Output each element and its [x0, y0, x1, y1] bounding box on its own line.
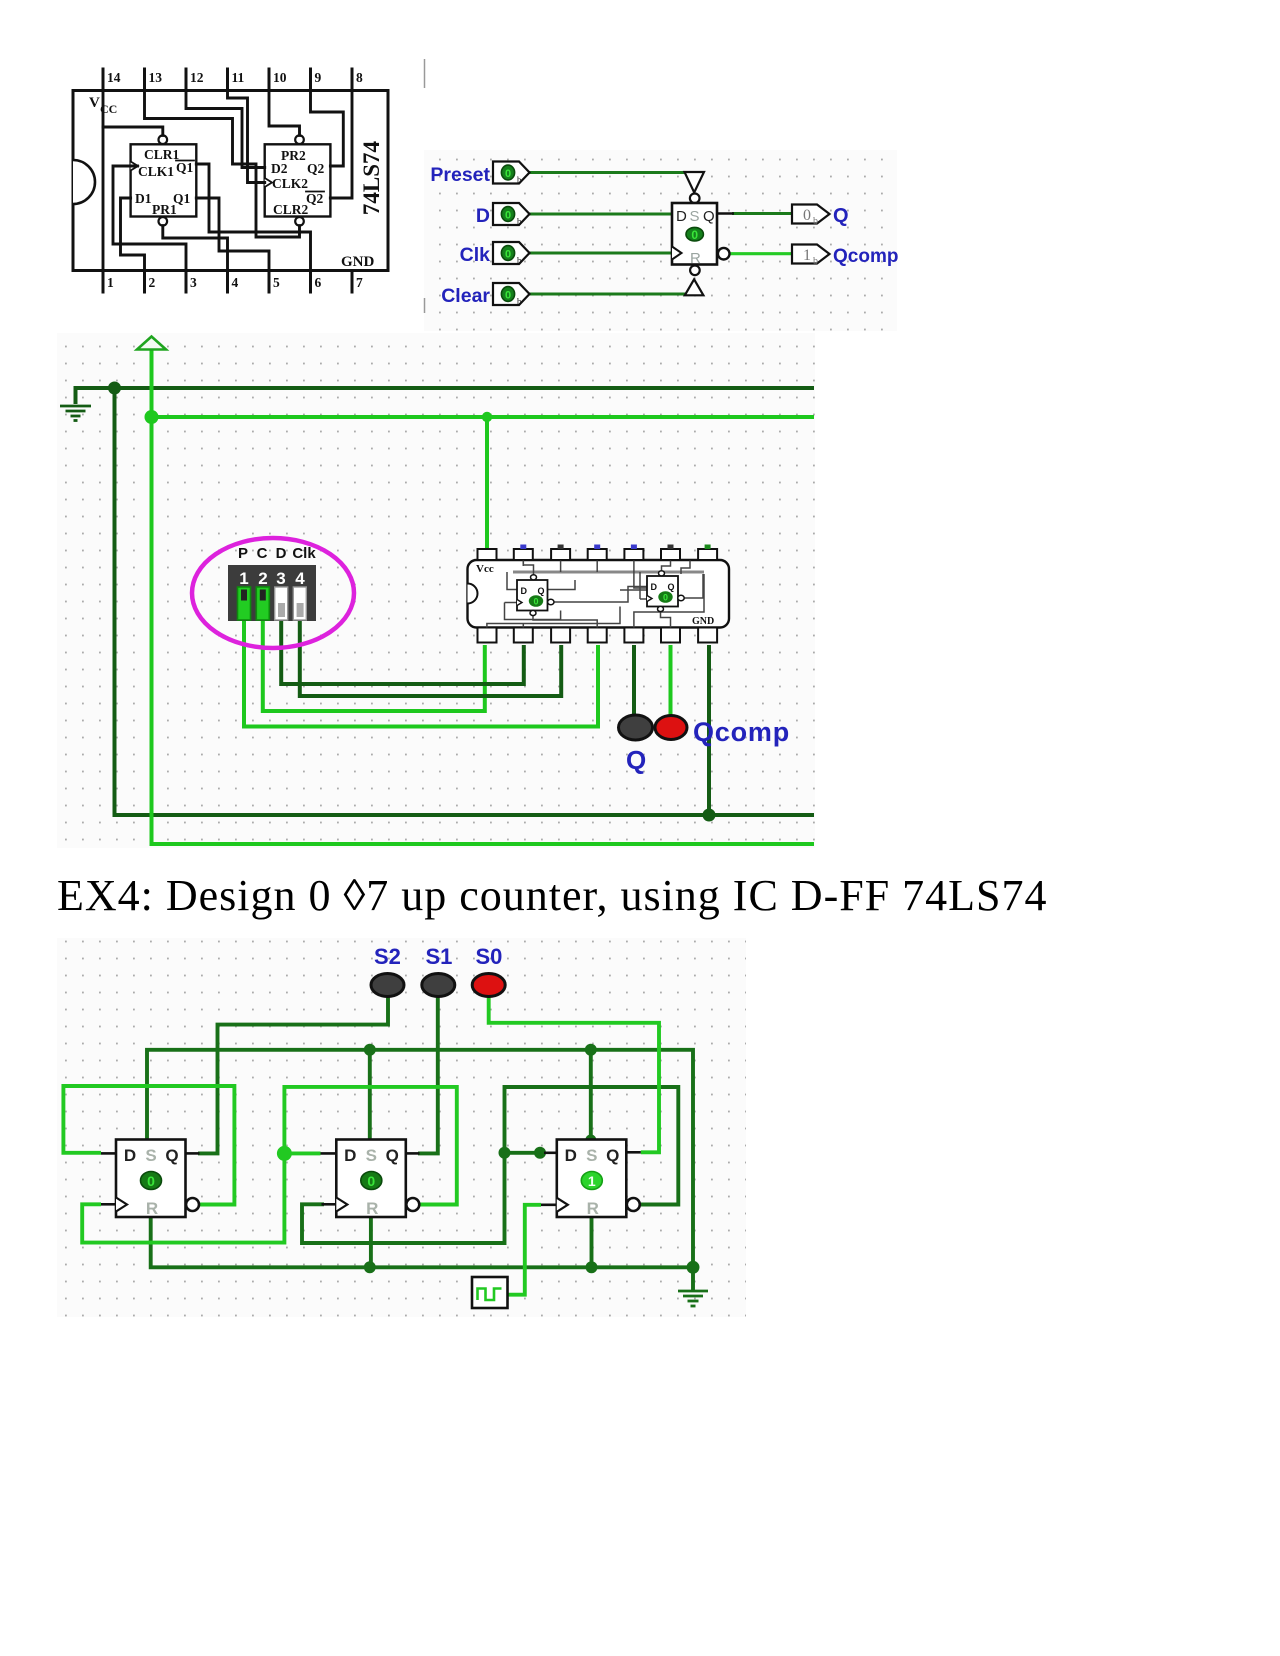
svg-text:CLK1: CLK1: [138, 164, 174, 179]
svg-text:Clk: Clk: [460, 244, 491, 266]
svg-text:R: R: [587, 1199, 599, 1218]
svg-text:V: V: [89, 95, 100, 111]
svg-text:PR1: PR1: [152, 202, 177, 217]
svg-text:S: S: [366, 1146, 377, 1165]
svg-text:Q: Q: [703, 208, 715, 225]
svg-text:3: 3: [276, 569, 285, 588]
svg-text:1: 1: [803, 247, 811, 264]
svg-text:0: 0: [505, 210, 511, 222]
svg-text:1: 1: [588, 1173, 596, 1189]
svg-text:D: D: [476, 205, 490, 227]
svg-text:C: C: [257, 545, 268, 562]
svg-text:Q: Q: [165, 1146, 178, 1165]
svg-text:Q1: Q1: [176, 160, 194, 175]
svg-text:R: R: [366, 1199, 378, 1218]
svg-text:b: b: [813, 216, 818, 227]
svg-text:0: 0: [505, 290, 511, 302]
svg-text:Q: Q: [538, 586, 545, 596]
svg-text:D: D: [565, 1146, 577, 1165]
svg-text:CLR2: CLR2: [273, 202, 309, 217]
svg-text:0: 0: [663, 593, 668, 603]
svg-text:8: 8: [356, 70, 363, 85]
svg-text:S: S: [690, 208, 700, 225]
svg-text:0: 0: [505, 249, 511, 261]
svg-text:GND: GND: [692, 616, 714, 627]
svg-text:7: 7: [356, 275, 363, 290]
svg-text:14: 14: [107, 70, 121, 85]
svg-text:Qcomp: Qcomp: [693, 717, 790, 747]
svg-text:Preset: Preset: [430, 164, 490, 186]
svg-text:12: 12: [190, 70, 204, 85]
svg-text:0: 0: [505, 168, 511, 180]
svg-text:6: 6: [315, 275, 322, 290]
svg-text:0: 0: [367, 1173, 375, 1189]
svg-text:D: D: [521, 586, 528, 596]
svg-text:R: R: [146, 1199, 158, 1218]
svg-text:Q: Q: [606, 1146, 619, 1165]
svg-text:CLK2: CLK2: [272, 176, 308, 191]
svg-text:Q: Q: [386, 1146, 399, 1165]
svg-text:EX4: Design 0 ◊7 up counter, u: EX4: Design 0 ◊7 up counter, using IC D-…: [57, 871, 1048, 920]
svg-text:1: 1: [107, 275, 114, 290]
svg-text:D: D: [276, 545, 287, 562]
svg-text:b: b: [517, 256, 522, 266]
svg-text:Clear: Clear: [441, 285, 490, 307]
svg-text:GND: GND: [341, 254, 375, 270]
svg-text:S0: S0: [476, 944, 503, 969]
svg-text:D2: D2: [271, 161, 288, 176]
svg-text:Q2: Q2: [306, 191, 324, 206]
svg-text:b: b: [813, 256, 818, 267]
svg-text:2: 2: [149, 275, 156, 290]
svg-text:D1: D1: [135, 191, 152, 206]
svg-text:5: 5: [273, 275, 280, 290]
svg-text:S: S: [145, 1146, 156, 1165]
svg-text:S: S: [586, 1146, 597, 1165]
svg-text:0: 0: [533, 597, 538, 607]
svg-text:D: D: [344, 1146, 356, 1165]
svg-text:CLR1: CLR1: [144, 147, 180, 162]
svg-text:D: D: [676, 208, 687, 225]
svg-text:Q2: Q2: [307, 161, 325, 176]
svg-text:9: 9: [315, 70, 322, 85]
svg-text:0: 0: [147, 1173, 155, 1189]
svg-text:Q: Q: [626, 745, 646, 775]
svg-text:Clk: Clk: [292, 545, 316, 562]
svg-text:b: b: [517, 175, 522, 185]
svg-text:S1: S1: [426, 944, 453, 969]
svg-text:R: R: [690, 250, 701, 267]
svg-text:3: 3: [190, 275, 197, 290]
svg-text:13: 13: [149, 70, 163, 85]
svg-text:P: P: [238, 545, 248, 562]
svg-text:1: 1: [239, 569, 248, 588]
svg-text:Qcomp: Qcomp: [833, 246, 898, 267]
svg-text:Q: Q: [668, 582, 675, 592]
svg-text:Vcc: Vcc: [476, 563, 494, 575]
svg-text:S2: S2: [374, 944, 401, 969]
svg-text:b: b: [517, 297, 522, 307]
svg-text:4: 4: [295, 569, 305, 588]
svg-text:0: 0: [691, 228, 698, 242]
svg-text:74LS74: 74LS74: [359, 140, 384, 215]
svg-text:2: 2: [258, 569, 267, 588]
svg-text:b: b: [517, 217, 522, 227]
svg-text:D: D: [124, 1146, 136, 1165]
svg-text:0: 0: [803, 207, 811, 224]
svg-text:11: 11: [232, 70, 245, 85]
svg-text:D: D: [651, 582, 658, 592]
svg-text:10: 10: [273, 70, 287, 85]
svg-text:Q: Q: [833, 205, 849, 227]
svg-text:4: 4: [232, 275, 239, 290]
